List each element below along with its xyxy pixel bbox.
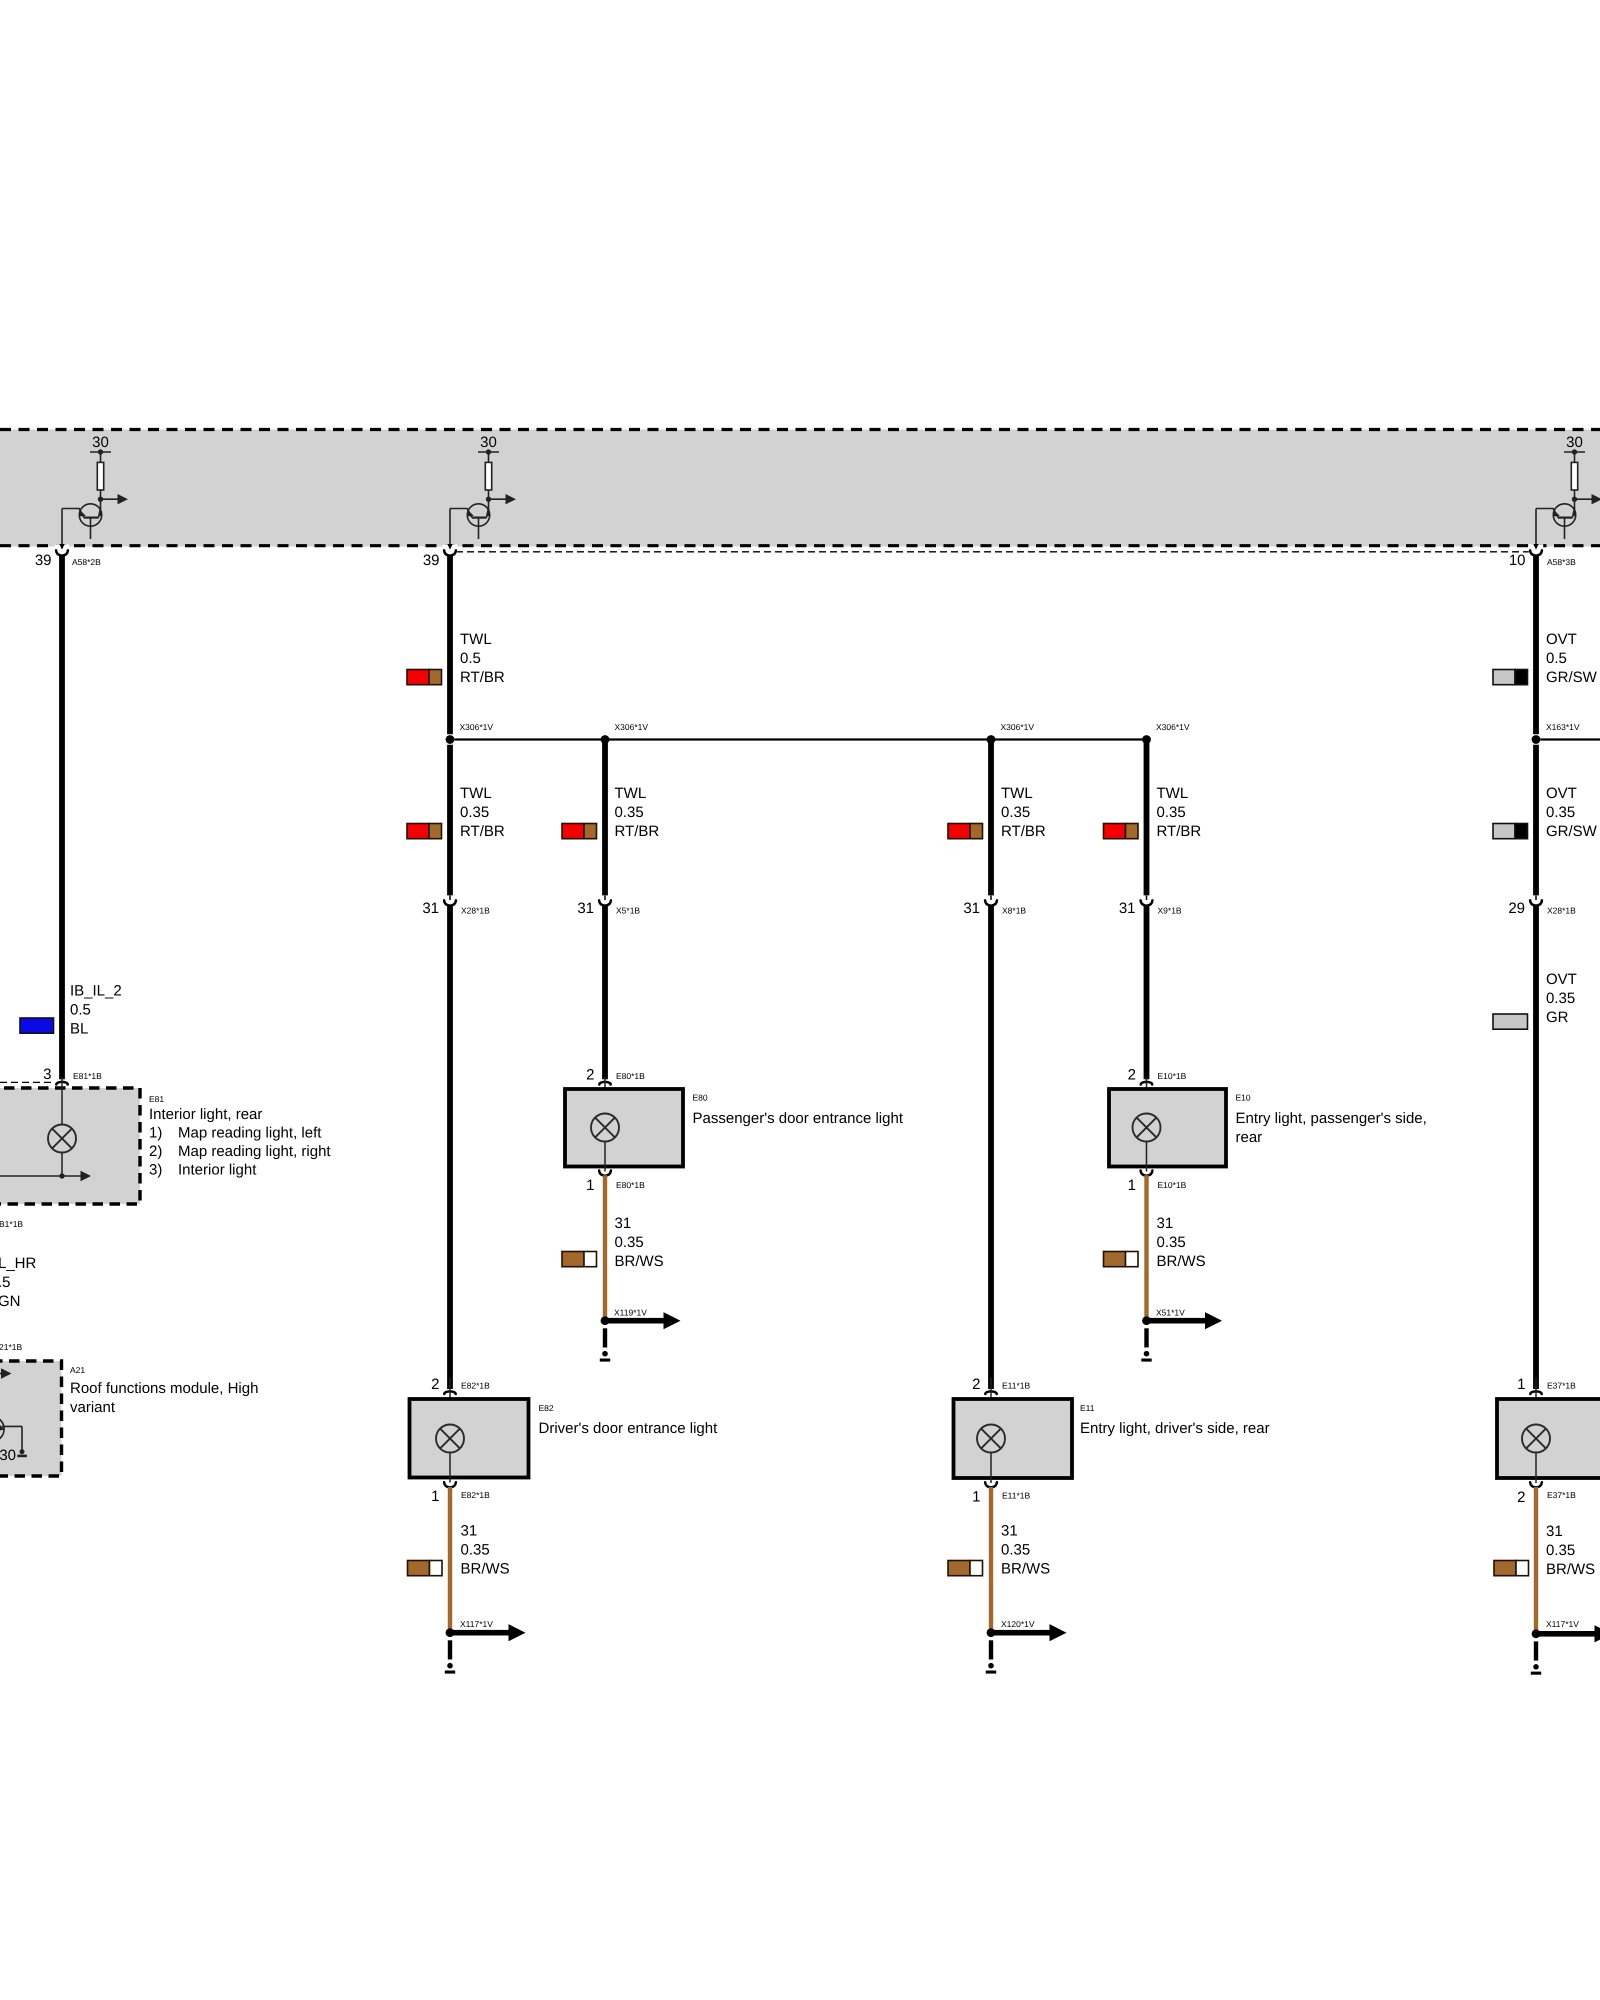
colour swatch BR/WS (brown/white) [1104, 1252, 1139, 1267]
svg-text:GR/SW: GR/SW [1546, 823, 1598, 840]
arrow: continuation of ground distribution (clipped at page edge) [1539, 1625, 1600, 1642]
connector socket at E82 pin 2 [444, 1391, 455, 1394]
wire: X306 branch down to splice 31/X9*1B (TWL 0.35 RT/BR) [1144, 741, 1150, 895]
wire: X28*1B to E82 pin 2 [447, 906, 453, 1389]
junction X117*1V (right) [1532, 1629, 1541, 1638]
svg-text:Interior light: Interior light [178, 1162, 257, 1179]
svg-text:1): 1) [149, 1125, 162, 1142]
junction X120*1V [987, 1628, 996, 1637]
svg-text:BR/WS: BR/WS [1001, 1561, 1050, 1578]
wire: E80 pin 1 to ground splice X119*1V (31 0.35 BR/WS) [603, 1175, 607, 1317]
lead: pin 2 into E80 [604, 1077, 606, 1114]
svg-text:TWL: TWL [460, 785, 492, 802]
svg-text:A58*2B: A58*2B [72, 557, 101, 567]
connector socket at pin 10 [1530, 550, 1542, 555]
internal wire with arrow inside E81 [0, 1175, 81, 1177]
svg-text:IB_IL_2: IB_IL_2 [70, 983, 122, 1000]
svg-text:TWL: TWL [460, 631, 492, 648]
svg-text:31: 31 [461, 1523, 478, 1540]
svg-text:31: 31 [1546, 1523, 1563, 1540]
colour swatch RT/BR (red/brown) [407, 670, 442, 685]
arrow: continuation of ground distribution at X120*1V [994, 1624, 1067, 1641]
svg-text:L_HR: L_HR [0, 1255, 37, 1272]
svg-text:X306*1V: X306*1V [1001, 722, 1035, 732]
svg-text:0.35: 0.35 [1546, 1542, 1575, 1559]
svg-text:E80*1B: E80*1B [616, 1071, 645, 1081]
svg-text:2: 2 [972, 1376, 980, 1393]
svg-text:TWL: TWL [615, 785, 647, 802]
wire: X306 branch down to splice 31/X5*1B (TWL 0.35 RT/BR) [602, 741, 608, 895]
junction X306*1V (third) [987, 735, 996, 744]
lamp symbol in E10 [1133, 1114, 1161, 1142]
junction X163*1V [1532, 735, 1541, 744]
lamp unit E82 box [410, 1399, 529, 1478]
svg-text:Passenger's door entrance ligh: Passenger's door entrance light [693, 1110, 904, 1127]
svg-text:X8*1B: X8*1B [1002, 906, 1026, 916]
svg-text:31: 31 [615, 1215, 632, 1232]
distribution wire from X163*1V to page edge [1541, 738, 1600, 740]
lamp unit E37 box (clipped at page edge) [1497, 1399, 1600, 1478]
colour swatch BR/WS (brown/white) [948, 1561, 983, 1576]
lead: lamp E81 to internal bus [61, 1153, 63, 1177]
svg-text:39: 39 [423, 552, 440, 569]
colour swatch RT/BR (red/brown) [562, 824, 597, 839]
connector E81*1B socket at pin 3 [56, 1082, 67, 1085]
svg-text:2: 2 [431, 1376, 439, 1393]
colour swatch RT/BR (red/brown) [948, 824, 983, 839]
ground bar in A21 [17, 1455, 27, 1458]
svg-text:TWL: TWL [1157, 785, 1189, 802]
inline connector X28*1B (right) [1530, 896, 1542, 906]
svg-text:A21: A21 [70, 1365, 85, 1375]
white gaps in dashed border at pin crossings [55, 544, 69, 556]
svg-text:Map reading light, left: Map reading light, left [178, 1125, 322, 1142]
svg-text:0.35: 0.35 [1157, 1234, 1186, 1251]
svg-text:X28*1B: X28*1B [1547, 906, 1576, 916]
svg-text:E11*1B: E11*1B [1002, 1491, 1031, 1501]
svg-text:OVT: OVT [1546, 971, 1577, 988]
svg-text:1: 1 [586, 1177, 594, 1194]
svg-text:29: 29 [1508, 900, 1525, 917]
svg-text:31: 31 [577, 900, 594, 917]
svg-text:E10*1B: E10*1B [1158, 1071, 1187, 1081]
wire: X9*1B to E10 pin 2 [1144, 906, 1150, 1079]
svg-text:E37*1B: E37*1B [1547, 1381, 1576, 1391]
transistor driver Q2 in A58 (output stage for TWL) [447, 434, 516, 550]
svg-text:E11*1B: E11*1B [1002, 1381, 1031, 1391]
svg-text:2): 2) [149, 1143, 162, 1160]
svg-text:0.5: 0.5 [460, 650, 481, 667]
lamp symbol in E82 [436, 1425, 464, 1453]
svg-text:X28*1B: X28*1B [461, 906, 490, 916]
connector A58*2B socket at pin 39 [56, 550, 68, 555]
lamp unit E10 box [1109, 1089, 1226, 1167]
svg-text:X51*1V: X51*1V [1156, 1308, 1185, 1318]
module A21 dashed box [0, 1361, 62, 1476]
svg-text:0.5: 0.5 [1546, 650, 1567, 667]
connector socket at E10 pin 1 (inverted) [1146, 1167, 1148, 1172]
inline connector X28*1B [444, 896, 456, 906]
svg-text:31: 31 [422, 900, 439, 917]
svg-text:E80*1B: E80*1B [616, 1180, 645, 1190]
svg-text:E10*1B: E10*1B [1158, 1180, 1187, 1190]
svg-text:RT/BR: RT/BR [460, 823, 505, 840]
svg-text:A58*3B: A58*3B [1547, 557, 1576, 567]
colour swatch BR/WS (brown/white) [562, 1252, 597, 1267]
junction X306*1V (fourth) [1142, 735, 1151, 744]
lead: pin 2 into E82 [449, 1378, 451, 1425]
colour swatch BL (blue) [20, 1018, 54, 1033]
transistor driver Q1 in A58 (output stage, terminal 30, pull-up resistor, output arrow) [59, 434, 128, 550]
colour swatch BR/WS (brown/white) [408, 1561, 443, 1576]
inline connector X5*1B [599, 896, 611, 906]
svg-text:E37*1B: E37*1B [1547, 1490, 1576, 1500]
svg-text:31: 31 [1119, 900, 1136, 917]
ground symbol below X120*1V [986, 1640, 996, 1673]
svg-text:BL: BL [70, 1021, 88, 1038]
svg-text:39: 39 [35, 552, 52, 569]
svg-text:E82*1B: E82*1B [461, 1490, 490, 1500]
svg-text:RT/BR: RT/BR [615, 823, 660, 840]
svg-text:BR/WS: BR/WS [1157, 1253, 1206, 1270]
colour swatch BR/WS (brown/white) [1494, 1561, 1529, 1576]
svg-text:B1*1B: B1*1B [0, 1219, 23, 1229]
lead: lamp E80 to pin 1 [604, 1142, 606, 1167]
svg-text:X117*1V: X117*1V [1546, 1619, 1579, 1629]
wire: X306 branch down to splice 31/X8*1B (TWL 0.35 RT/BR) [988, 741, 994, 895]
wire: X28*1B to E37 pin 1 (OVT 0.35 GR) [1533, 906, 1539, 1389]
svg-text:21*1B: 21*1B [0, 1342, 22, 1352]
internal arrow inside A21 [0, 1373, 2, 1375]
connector socket at E37 pin 1 [1530, 1391, 1541, 1394]
connector socket at E11 pin 2 [985, 1391, 996, 1394]
lead: pin 3 to lamp E81 [61, 1077, 63, 1125]
svg-text:X163*1V: X163*1V [1546, 722, 1580, 732]
svg-text:OVT: OVT [1546, 631, 1577, 648]
svg-text:E10: E10 [1236, 1093, 1251, 1103]
lead: pin 2 into E11 [990, 1378, 992, 1425]
inline connector X8*1B [985, 896, 997, 906]
svg-text:X120*1V: X120*1V [1001, 1619, 1035, 1629]
svg-text:E11: E11 [1080, 1403, 1095, 1413]
lamp symbol in E11 [977, 1425, 1005, 1453]
wire: X8*1B to E11 pin 2 [988, 906, 994, 1389]
svg-text:0.35: 0.35 [1157, 804, 1186, 821]
junction X117*1V [446, 1628, 455, 1637]
junction X119*1V [601, 1316, 610, 1325]
svg-text:OVT: OVT [1546, 785, 1577, 802]
svg-text:2: 2 [1517, 1489, 1525, 1506]
lamp symbol in E80 [591, 1114, 619, 1142]
svg-text:2: 2 [1128, 1067, 1136, 1084]
svg-text:0.35: 0.35 [1001, 1542, 1030, 1559]
svg-text:E80: E80 [693, 1093, 708, 1103]
svg-text:GR: GR [1546, 1009, 1569, 1026]
module A58 gray band fill [0, 430, 1600, 547]
svg-text:1: 1 [431, 1488, 439, 1505]
wire: A58 pin 39 to junction X306*1V (TWL 0.5 RT/BR) [447, 555, 453, 734]
svg-text:X306*1V: X306*1V [460, 722, 494, 732]
svg-text:RT/BR: RT/BR [1001, 823, 1046, 840]
transistor in A21 (clipped at page edge) [0, 1416, 4, 1441]
svg-text:30: 30 [0, 1447, 16, 1464]
svg-text:X5*1B: X5*1B [616, 906, 640, 916]
svg-text:X306*1V: X306*1V [1156, 722, 1190, 732]
svg-text:0.35: 0.35 [615, 1234, 644, 1251]
wire: E11 pin 1 to ground splice X120*1V (31 0.35 BR/WS) [989, 1487, 993, 1629]
wire: E10 pin 1 to ground splice X51*1V (31 0.35 BR/WS) [1144, 1175, 1148, 1317]
svg-text:X117*1V: X117*1V [460, 1619, 493, 1629]
terminal 30 node dot in A21 [20, 1449, 25, 1454]
wire: X306 junction down to splice 31/X28*1B (TWL 0.35 RT/BR) [447, 745, 453, 896]
svg-text:BR/WS: BR/WS [1546, 1561, 1595, 1578]
lamp symbol in E81 (interior light) [48, 1125, 76, 1153]
lead: pin 1 into E37 [1535, 1378, 1537, 1425]
wire: X163 junction down to splice 29/X28*1B (OVT 0.35 GR/SW) [1533, 745, 1539, 896]
junction X51*1V [1142, 1316, 1151, 1325]
connector socket at E80 pin 2 [599, 1082, 610, 1085]
colour swatch RT/BR (red/brown) [1104, 824, 1139, 839]
svg-text:Driver's door entrance light: Driver's door entrance light [539, 1420, 719, 1437]
transistor driver Q3 in A58 (output stage for OVT) [1533, 434, 1600, 550]
svg-text:.5: .5 [0, 1274, 11, 1291]
ground symbol below X117*1V (right) [1531, 1641, 1541, 1674]
connector socket at E10 pin 2 [1141, 1082, 1152, 1085]
lead: pin 2 into E10 [1146, 1077, 1148, 1114]
lead: lamp E82 to pin 1 [449, 1453, 451, 1478]
svg-text:1: 1 [972, 1489, 980, 1506]
ground symbol below X51*1V [1141, 1328, 1151, 1361]
module A58 bottom dashed border [0, 544, 1600, 547]
svg-text:0.35: 0.35 [460, 804, 489, 821]
svg-text:E82: E82 [539, 1403, 554, 1413]
harness boundary thin dashed line between pin 39 and pin 10 [456, 551, 1530, 553]
svg-text:X9*1B: X9*1B [1158, 906, 1182, 916]
svg-text:E81: E81 [149, 1094, 164, 1104]
junction X306*1V (second) [601, 735, 610, 744]
svg-text:RT/BR: RT/BR [460, 669, 505, 686]
lead: lamp E11 to pin 1 [990, 1453, 992, 1479]
svg-text:TWL: TWL [1001, 785, 1033, 802]
svg-text:GN: GN [0, 1293, 21, 1310]
arrow: continuation of ground distribution at X119*1V [608, 1312, 681, 1329]
svg-text:variant: variant [70, 1399, 116, 1416]
arrow: continuation of ground distribution at X51*1V [1150, 1312, 1223, 1329]
svg-text:0.5: 0.5 [70, 1002, 91, 1019]
svg-text:0.35: 0.35 [615, 804, 644, 821]
connector socket at E80 pin 1 (inverted) [604, 1167, 606, 1172]
wire: A58 pin 39 to E81 pin 3 (SW 0.5) [59, 555, 65, 1079]
svg-text:0.35: 0.35 [1546, 990, 1575, 1007]
wire: A21 transistor to internal ground [2, 1425, 22, 1427]
connector socket at E82 pin 1 (inverted) [449, 1478, 451, 1483]
svg-text:Entry light, passenger's side,: Entry light, passenger's side, [1236, 1110, 1427, 1127]
connector socket at E37 pin 2 (inverted) [1535, 1478, 1537, 1483]
svg-text:0.35: 0.35 [1001, 804, 1030, 821]
wire: E37 pin 2 to ground splice X117*1V (31 0.35 BR/WS) [1534, 1487, 1538, 1630]
svg-text:Map reading light, right: Map reading light, right [178, 1143, 331, 1160]
ground symbol below X119*1V [600, 1328, 610, 1361]
inline connector X9*1B [1141, 896, 1153, 906]
svg-text:2: 2 [586, 1067, 594, 1084]
wire: X5*1B to E80 pin 2 [602, 906, 608, 1079]
colour swatch GR (grey) [1493, 1014, 1528, 1029]
junction X306*1V (first) [446, 735, 455, 744]
svg-text:RT/BR: RT/BR [1157, 823, 1202, 840]
svg-text:1: 1 [1128, 1177, 1136, 1194]
lamp unit E80 box [565, 1089, 683, 1167]
svg-text:X306*1V: X306*1V [615, 722, 649, 732]
lamp unit E11 box [954, 1399, 1073, 1478]
svg-text:1: 1 [1517, 1376, 1525, 1393]
svg-text:BR/WS: BR/WS [461, 1561, 510, 1578]
svg-text:31: 31 [963, 900, 980, 917]
distribution wire X306*1V [455, 738, 1147, 740]
colour swatch RT/BR (red/brown) [407, 824, 442, 839]
lead: lamp E10 to pin 1 [1146, 1142, 1148, 1167]
svg-text:10: 10 [1509, 552, 1526, 569]
harness boundary thin dashed line at E81 pin 3 [0, 1081, 55, 1083]
svg-text:BR/WS: BR/WS [615, 1253, 664, 1270]
svg-text:0.35: 0.35 [461, 1542, 490, 1559]
svg-text:31: 31 [1001, 1523, 1018, 1540]
lamp symbol in E37 [1522, 1425, 1550, 1453]
svg-text:Roof functions module, High: Roof functions module, High [70, 1380, 258, 1397]
svg-text:Interior light, rear: Interior light, rear [149, 1106, 262, 1123]
module A58 top dashed border [0, 428, 1600, 431]
colour swatch GR/SW (grey/black) [1493, 824, 1528, 839]
svg-text:3): 3) [149, 1162, 162, 1179]
connector socket at E11 pin 1 (inverted) [990, 1478, 992, 1483]
lead: lamp E37 to pin 2 [1535, 1453, 1537, 1479]
lamp unit E81 dashed module box [0, 1088, 140, 1204]
ground symbol below X117*1V [445, 1640, 455, 1673]
wire: E82 pin 1 to ground splice X117*1V (31 0.35 BR/WS) [448, 1487, 452, 1629]
wire: A58 pin 10 to junction X163*1V (OVT 0.5 GR/SW) [1533, 555, 1539, 734]
svg-text:rear: rear [1236, 1129, 1263, 1146]
svg-text:Entry light, driver's side, re: Entry light, driver's side, rear [1080, 1420, 1270, 1437]
svg-text:X119*1V: X119*1V [614, 1308, 647, 1318]
svg-text:GR/SW: GR/SW [1546, 669, 1598, 686]
svg-text:E81*1B: E81*1B [73, 1071, 102, 1081]
arrow: continuation of ground distribution at X117*1V [453, 1624, 526, 1641]
svg-text:31: 31 [1157, 1215, 1174, 1232]
svg-text:0.35: 0.35 [1546, 804, 1575, 821]
colour swatch GR/SW (grey/black) [1493, 670, 1528, 685]
connector socket at pin 39 (middle) [444, 550, 456, 555]
svg-text:E82*1B: E82*1B [461, 1381, 490, 1391]
svg-text:3: 3 [43, 1066, 51, 1083]
